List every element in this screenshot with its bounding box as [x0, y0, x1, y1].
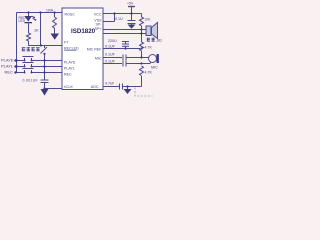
svg-text:MIC: MIC [95, 56, 102, 60]
svg-text:1K: 1K [34, 29, 39, 33]
svg-text:+5V: +5V [127, 2, 134, 6]
svg-text:0.1U: 0.1U [115, 17, 123, 21]
svg-text:ROSC: ROSC [65, 12, 76, 16]
svg-text:LED: LED [19, 19, 26, 23]
svg-text:SP-: SP- [96, 23, 103, 27]
svg-text:REC: REC [5, 70, 14, 75]
svg-text:MIC REF: MIC REF [87, 47, 103, 51]
svg-text:220U: 220U [108, 39, 117, 43]
svg-text:RECLED: RECLED [64, 46, 79, 50]
svg-text:4.7uF: 4.7uF [105, 81, 115, 85]
svg-text:AGC: AGC [91, 85, 99, 89]
svg-text:4.7K: 4.7K [145, 70, 153, 74]
svg-text:PLAYE: PLAYE [64, 60, 76, 64]
svg-text:REC: REC [64, 72, 72, 76]
svg-text:MIC: MIC [151, 65, 158, 69]
svg-text:PLAYL: PLAYL [64, 66, 75, 70]
svg-text:10K: 10K [145, 17, 152, 21]
svg-text:VCC: VCC [94, 12, 102, 16]
svg-text:0.1UF: 0.1UF [105, 44, 116, 48]
svg-text:0.1UF: 0.1UF [105, 59, 116, 63]
svg-text:ISD1820: ISD1820 [71, 28, 96, 35]
svg-text:PLAYE: PLAYE [1, 58, 14, 63]
svg-text:100k: 100k [46, 9, 54, 13]
svg-text:0.1UF: 0.1UF [105, 52, 116, 56]
svg-text:PLAYL: PLAYL [1, 64, 14, 69]
svg-text:4.7K: 4.7K [145, 46, 153, 50]
svg-text:,8Ω: ,8Ω [156, 39, 162, 43]
svg-text:0.001UF: 0.001UF [23, 79, 38, 83]
svg-text:SP+: SP+ [95, 27, 102, 31]
svg-text:XCLK: XCLK [64, 85, 74, 89]
